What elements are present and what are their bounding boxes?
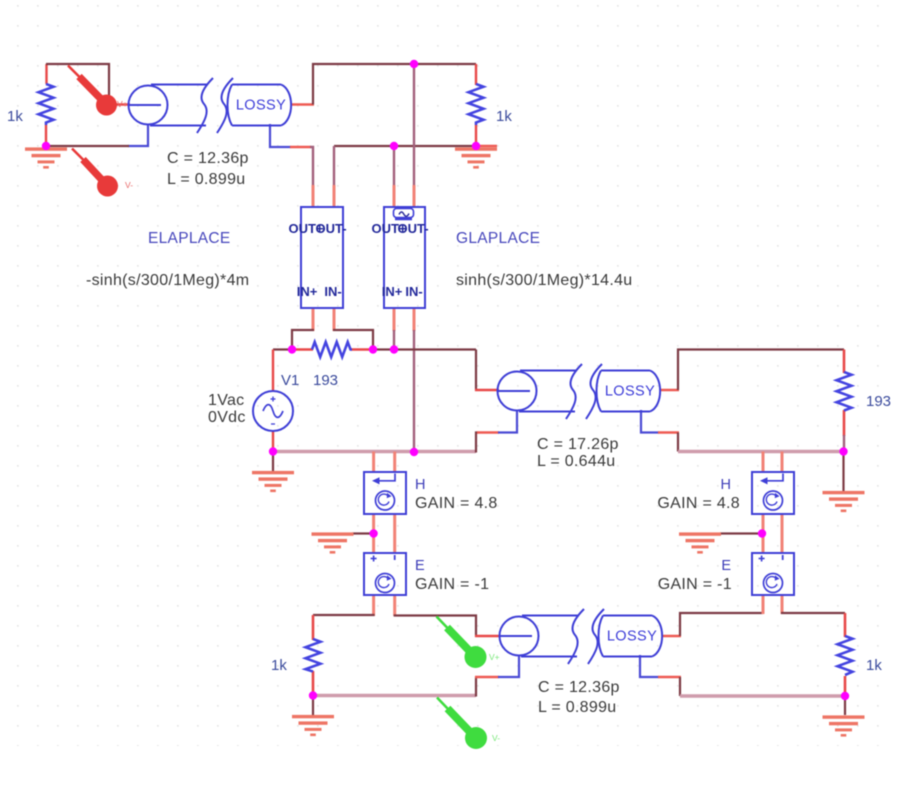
svg-text:1k: 1k bbox=[496, 108, 512, 125]
svg-text:V-: V- bbox=[125, 180, 133, 190]
wire: T2 left pin stub bbox=[475, 389, 499, 392]
pin stub: H2 out+ to E2 bbox=[762, 514, 765, 554]
wire: T1 B- to ELAPLACE OUT+ bbox=[310, 147, 313, 186]
pin stub: E2 out+ bbox=[762, 595, 765, 614]
ground G6 bbox=[823, 491, 865, 512]
probe V+ red bbox=[68, 66, 117, 116]
pin stub: ELAPLACE OUT+ bbox=[312, 185, 315, 207]
wire: bottom ref corner up to T3 B- bbox=[475, 677, 477, 697]
ccvs H1 bbox=[364, 472, 406, 514]
svg-text:C = 17.26p: C = 17.26p bbox=[537, 436, 619, 453]
vcvs E2 bbox=[752, 553, 794, 595]
wire: T1 out up to top net bbox=[313, 64, 476, 105]
svg-text:IN-: IN- bbox=[324, 284, 341, 299]
wire: T3 left pin stub bbox=[475, 635, 500, 638]
svg-text:L = 0.899u: L = 0.899u bbox=[538, 699, 616, 716]
transmission line T2 LOSSY bbox=[497, 364, 660, 419]
svg-text:GAIN = 4.8: GAIN = 4.8 bbox=[415, 495, 498, 512]
wire: mid net V1 to R3 bbox=[273, 348, 292, 350]
wire: H1 mid junction to ground bbox=[352, 532, 374, 534]
pin stub: E2 out- bbox=[781, 595, 784, 614]
wire: T3 B- stub red bbox=[475, 676, 499, 679]
svg-text:LOSSY: LOSSY bbox=[605, 384, 655, 400]
svg-text:C = 12.36p: C = 12.36p bbox=[538, 679, 620, 696]
svg-text:OUT-: OUT- bbox=[397, 221, 428, 236]
svg-text:ELAPLACE: ELAPLACE bbox=[148, 230, 231, 247]
pin stub: E1 out+ bbox=[372, 595, 375, 616]
svg-text:IN+: IN+ bbox=[297, 284, 318, 299]
junction mid net left bbox=[288, 345, 296, 353]
wire: T2 bottom-right pin bbox=[641, 410, 659, 433]
svg-text:-sinh(s/300/1Meg)*4m: -sinh(s/300/1Meg)*4m bbox=[86, 272, 249, 289]
wire: T2 bottom-left pin bbox=[498, 410, 517, 433]
wire: T3 out up to E2 bbox=[680, 613, 763, 636]
wire: V1 bottom stub bbox=[272, 431, 274, 452]
pin stub: H1 in+ bbox=[372, 452, 375, 474]
resistor R6 193 bbox=[837, 372, 852, 411]
wire: T1 ref to ground junction bbox=[46, 145, 129, 147]
junction R7 bottom bbox=[841, 692, 849, 700]
wire: T3 B+ stub red bbox=[658, 676, 681, 679]
voltage source V1 bbox=[253, 391, 293, 431]
pin stub: H1 out+ to E1 bbox=[372, 514, 375, 554]
laplace block U2 GLAPLACE bbox=[384, 207, 425, 308]
wire: R4 top stub bbox=[312, 615, 315, 640]
junction at R2 bottom bbox=[472, 142, 480, 150]
svg-text:LOSSY: LOSSY bbox=[607, 629, 657, 645]
svg-text:1k: 1k bbox=[271, 657, 287, 674]
wire: E1 out- to T3 input bbox=[394, 616, 476, 638]
resistor R4 1k bbox=[306, 639, 321, 672]
svg-text:LOSSY: LOSSY bbox=[236, 98, 286, 114]
wire: T2 out up and right to R6 bbox=[678, 350, 844, 391]
wire: T2 B+ stub red bbox=[658, 431, 679, 434]
wire: T3 right pin stub bbox=[662, 635, 681, 638]
wire: T3 B+ down to bottom-right ref bbox=[679, 677, 681, 696]
junction ground net to GLAPLACE OUT+ bbox=[390, 142, 398, 150]
junction mid net GLAPLACE IN+ bbox=[390, 345, 398, 353]
svg-text:sinh(s/300/1Meg)*14.4u: sinh(s/300/1Meg)*14.4u bbox=[456, 272, 632, 289]
wire: GLAPLACE IN+ down to mid net bbox=[393, 330, 395, 350]
wire: T2 right pin stub bbox=[660, 389, 679, 392]
svg-text:H: H bbox=[415, 477, 425, 493]
pin stub: ELAPLACE IN+ bbox=[312, 308, 315, 331]
wire: T1 bottom-left pin bbox=[128, 124, 148, 146]
pin stub: H2 out- to E2 bbox=[781, 514, 784, 554]
svg-text:V+: V+ bbox=[489, 652, 500, 662]
svg-text:0Vdc: 0Vdc bbox=[208, 409, 246, 426]
svg-text:L = 0.644u: L = 0.644u bbox=[537, 453, 615, 470]
pin stub: GLAPLACE IN- bbox=[413, 308, 416, 331]
pin stub: ELAPLACE OUT- bbox=[333, 185, 336, 207]
junction H1-E1 ground bbox=[369, 529, 377, 537]
icon U2 laplace bbox=[394, 209, 414, 220]
wire: R6 junction down to ground bbox=[842, 452, 844, 492]
ground G5 bbox=[679, 532, 721, 553]
svg-text:1k: 1k bbox=[7, 108, 23, 125]
wire: R7 junction to ground bbox=[844, 696, 846, 715]
wire: R6 top stub bbox=[843, 350, 846, 374]
svg-text:OUT-: OUT- bbox=[315, 221, 346, 236]
wire: GLAPLACE IN- down to lower ref net bbox=[413, 330, 415, 452]
wire: R1 bottom stub bbox=[45, 125, 47, 147]
wire: E1 out+ to R4 bbox=[313, 614, 375, 616]
pin stub: H2 in- bbox=[781, 452, 784, 474]
wire: ELAPLACE IN- to mid net bbox=[333, 330, 373, 350]
svg-text:V+: V+ bbox=[117, 99, 128, 109]
transmission line T3 LOSSY bbox=[499, 609, 662, 664]
junction on top net bbox=[410, 60, 418, 68]
laplace block U1 ELAPLACE bbox=[301, 207, 343, 308]
ground G2 bbox=[455, 147, 497, 168]
wire: R3 right stub bbox=[351, 348, 374, 351]
svg-text:IN+: IN+ bbox=[382, 284, 403, 299]
wire: mid net right run bbox=[373, 348, 476, 350]
wire: H2 mid junction to ground bbox=[720, 532, 762, 534]
svg-text:V-: V- bbox=[492, 733, 500, 743]
wire: V1 top stub bbox=[272, 350, 274, 393]
wire: R2 bottom stub bbox=[475, 125, 477, 147]
junction R4 bottom bbox=[309, 691, 317, 699]
ground G1 bbox=[25, 147, 67, 168]
resistor R2 1k bbox=[469, 84, 484, 125]
wire: ELAPLACE OUT- up to ground net bbox=[333, 146, 335, 186]
pin stub: E1 out- bbox=[393, 595, 396, 616]
ground G4 bbox=[312, 532, 354, 553]
resistor R3 193 (horizontal) bbox=[312, 342, 352, 357]
wire: R4 junction to ground bbox=[312, 696, 314, 715]
svg-text:V1: V1 bbox=[281, 372, 299, 389]
wire: top-left loop horizontal bbox=[46, 64, 109, 99]
wire: ELAPLACE IN+ to mid net bbox=[292, 330, 314, 350]
pin stub: GLAPLACE OUT+ bbox=[393, 185, 396, 207]
wire: E2 out- to R7 bbox=[781, 612, 845, 614]
svg-text:E: E bbox=[415, 558, 425, 574]
ground G3 bbox=[252, 471, 294, 492]
svg-text:IN-: IN- bbox=[405, 284, 422, 299]
svg-text:GLAPLACE: GLAPLACE bbox=[456, 230, 540, 247]
svg-text:H: H bbox=[721, 477, 731, 493]
junction mid net right bbox=[369, 345, 377, 353]
junction R6 bottom bbox=[839, 447, 847, 455]
pin stub: ELAPLACE IN- bbox=[333, 308, 336, 331]
svg-text:GAIN = -1: GAIN = -1 bbox=[415, 576, 489, 593]
pin stub: H1 out- to E1 bbox=[393, 514, 396, 554]
junction H2-E2 ground bbox=[758, 529, 766, 537]
svg-text:C = 12.36p: C = 12.36p bbox=[167, 150, 249, 167]
pin stub: H2 in+ bbox=[762, 452, 765, 474]
svg-text:193: 193 bbox=[313, 372, 338, 389]
wire: V1 ground stub bbox=[272, 452, 274, 472]
probe V- green bbox=[437, 698, 487, 750]
svg-text:GAIN = 4.8: GAIN = 4.8 bbox=[657, 495, 740, 512]
ground G7 bbox=[292, 715, 334, 736]
svg-text:1k: 1k bbox=[866, 657, 882, 674]
pin stub: GLAPLACE IN+ bbox=[393, 308, 396, 331]
wire: H2 side ref net bbox=[678, 450, 844, 453]
svg-text:L = 0.899u: L = 0.899u bbox=[167, 171, 245, 188]
probe V- red bbox=[72, 149, 118, 197]
resistor R1 1k bbox=[39, 84, 54, 125]
wire: T1 left pin stub bbox=[107, 103, 130, 106]
vcvs E1 bbox=[364, 553, 406, 595]
junction GLAPLACE IN- ref bbox=[410, 448, 418, 456]
wire: ground net down to GLAPLACE OUT+ bbox=[393, 146, 395, 186]
wire: R1 top to corner bbox=[45, 64, 47, 84]
wire: R6 bottom to junction bbox=[843, 435, 845, 452]
wire: T1 right pin stub bbox=[292, 103, 314, 106]
svg-text:GAIN = -1: GAIN = -1 bbox=[658, 576, 732, 593]
wire: R7 top stub bbox=[844, 613, 847, 637]
wire: T3 bottom-left pin bbox=[498, 655, 519, 677]
wire: bottom ref net R4 to T3 bbox=[313, 694, 476, 697]
wire: R3 left stub bbox=[291, 348, 313, 351]
svg-text:193: 193 bbox=[866, 393, 891, 410]
wire: T2 B+ down to H2 net bbox=[677, 433, 679, 452]
wire: R6 bottom stub bbox=[843, 410, 846, 436]
wire: T3 bottom-right pin bbox=[640, 655, 659, 677]
wire: mid net down to T2 input bbox=[475, 350, 477, 392]
wire: ground stub right of R2 junction bbox=[476, 145, 497, 147]
wire: lower ref corner up to T2 B- pin bbox=[476, 433, 478, 453]
junction V1 minus bbox=[269, 447, 277, 455]
wire: R7 bottom stub bbox=[844, 676, 847, 697]
wire: top net down to GLAPLACE OUT- bbox=[413, 64, 415, 186]
ccvs H2 bbox=[752, 472, 794, 514]
transmission line T1 LOSSY bbox=[128, 78, 291, 133]
wire: T1 bottom-right pin bbox=[270, 124, 291, 147]
wire: T1 B- stub red bbox=[290, 146, 311, 149]
wire: ground net top, ELAPLACE OUT- to R2 bottom bbox=[334, 145, 476, 147]
pin stub: H1 in- bbox=[393, 452, 396, 474]
probe V+ green bbox=[437, 617, 487, 669]
svg-text:E: E bbox=[721, 558, 731, 574]
wire: R4 bottom stub bbox=[312, 671, 315, 696]
svg-text:1Vac: 1Vac bbox=[208, 392, 244, 409]
junction at R1 bottom bbox=[42, 142, 50, 150]
pin stub: GLAPLACE OUT- bbox=[413, 185, 416, 207]
wire: lower ref net V1 to T2 bbox=[273, 450, 476, 453]
resistor R7 1k bbox=[838, 636, 853, 675]
wire: bottom-right ref net bbox=[680, 694, 845, 697]
wire: T2 B- stub red bbox=[477, 431, 499, 434]
wire: top net down to R2 bbox=[475, 64, 477, 85]
ground G8 bbox=[823, 715, 865, 736]
